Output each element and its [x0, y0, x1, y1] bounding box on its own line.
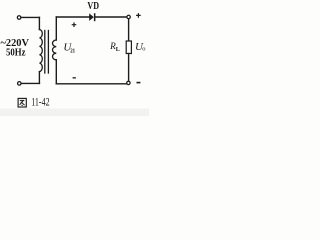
terminal bottom-left: [18, 82, 22, 86]
svg-text:o: o: [142, 45, 145, 52]
resistor RL body: [126, 41, 131, 54]
terminal top-left: [17, 16, 21, 20]
wire resistor to bottom node: [128, 54, 130, 82]
svg-text:VD: VD: [87, 1, 99, 12]
wire node to resistor: [128, 19, 130, 41]
label + secondary: [72, 22, 77, 27]
transformer core left line: [44, 31, 46, 74]
bottom page band: [0, 109, 149, 117]
wire secondary top vertical: [55, 17, 57, 40]
wire top-left horizontal: [21, 16, 39, 18]
wire primary bottom vertical: [38, 72, 40, 84]
label - secondary: [73, 77, 76, 78]
wire diode cathode to node: [95, 16, 126, 18]
label - output: [137, 82, 141, 84]
svg-text:21: 21: [70, 48, 75, 55]
svg-text:50Hz: 50Hz: [6, 48, 26, 59]
svg-text:L: L: [116, 47, 120, 53]
diode VD triangle and bar: [89, 13, 95, 21]
wire bottom-left horizontal: [22, 82, 40, 84]
wire secondary bottom vertical: [55, 60, 57, 84]
transformer secondary winding: [53, 40, 57, 60]
node bottom-right: [127, 81, 130, 84]
caption hanzi tu (figure): [18, 98, 26, 107]
svg-text:11-42: 11-42: [31, 97, 50, 109]
transformer core right line: [47, 31, 49, 74]
wire top rail: [56, 16, 89, 18]
transformer primary winding: [39, 30, 42, 72]
wire primary top vertical: [38, 17, 40, 29]
label + output: [136, 13, 141, 18]
node top-right: [127, 15, 130, 18]
wire bottom rail: [56, 83, 126, 85]
